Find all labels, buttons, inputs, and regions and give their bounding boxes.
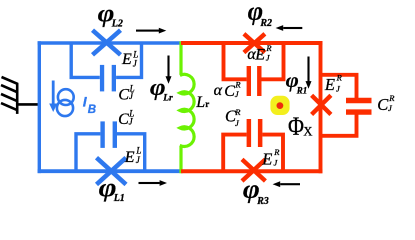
ground xyxy=(1,77,39,114)
capacitor C_J^L bottom plates xyxy=(103,121,115,147)
wire capacitor branch top-left (C_J^L shunt box) xyxy=(71,43,141,77)
label Phi_X xyxy=(288,113,312,141)
label phi_Lr xyxy=(150,73,173,103)
label phi_R3 xyxy=(243,173,269,206)
current source I_B arrow xyxy=(49,81,57,113)
wire capacitor branch far right (C_J^R) xyxy=(321,75,357,136)
svg-text:R: R xyxy=(336,73,343,83)
svg-text:L: L xyxy=(135,146,141,156)
label C_J^R bottom xyxy=(225,106,241,128)
svg-text:E: E xyxy=(121,51,132,68)
label E_J^L bottom xyxy=(124,146,142,167)
label phi_R1 xyxy=(286,69,308,96)
label C_J^R right xyxy=(377,93,395,114)
svg-text:L2: L2 xyxy=(111,19,123,30)
label alpha C_J^R xyxy=(214,80,242,100)
svg-text:Lr: Lr xyxy=(162,93,173,103)
wire blue left vertical xyxy=(38,41,41,173)
svg-text:R2: R2 xyxy=(259,18,272,29)
wire red bottom xyxy=(181,169,322,173)
wire capacitor branch bottom-right (C_J^R shunt box) xyxy=(223,135,283,172)
svg-text:E: E xyxy=(324,75,335,94)
junction X phi_R3 xyxy=(242,159,265,181)
current source I_B circles xyxy=(57,89,74,116)
svg-text:R1: R1 xyxy=(296,85,308,95)
inductor L_r coil xyxy=(180,41,194,173)
svg-text:L: L xyxy=(195,94,205,111)
junction X phi_L1 xyxy=(97,158,127,185)
svg-text:R: R xyxy=(234,107,241,117)
wire red top xyxy=(181,41,322,45)
wire blue bottom xyxy=(38,169,181,173)
svg-text:α: α xyxy=(214,82,223,99)
arrow left (bottom right, phi_R3 direction) xyxy=(273,181,300,187)
junction X phi_R2 xyxy=(244,34,265,53)
arrow right (bottom left, phi_L1 direction) xyxy=(139,180,168,186)
wire capacitor branch bottom-left (C_J^L shunt box) xyxy=(76,134,145,171)
label E_J^L top xyxy=(121,50,138,69)
arrow left (top right, phi_R2 direction) xyxy=(276,25,303,31)
label E_J^R right xyxy=(324,73,343,94)
svg-text:E: E xyxy=(254,47,265,64)
label phi_L2 xyxy=(98,0,123,30)
arrow down (phi_Lr) xyxy=(166,56,172,84)
arrow down (phi_R1) xyxy=(306,57,312,89)
svg-text:E: E xyxy=(124,149,135,166)
svg-text:R: R xyxy=(234,80,241,90)
wire capacitor branch top-right (alpha C_J^R shunt box) xyxy=(224,43,284,79)
label I_B xyxy=(83,94,96,117)
junction X phi_R1 xyxy=(312,95,331,114)
label phi_L1 xyxy=(99,174,125,204)
svg-text:E: E xyxy=(261,149,272,168)
label phi_R2 xyxy=(248,0,272,29)
svg-text:R: R xyxy=(273,147,280,157)
svg-text:C: C xyxy=(118,111,129,128)
wire red right vertical (E_J^R junction branch) xyxy=(319,41,323,173)
svg-text:B: B xyxy=(88,104,96,116)
label alpha E_J^R xyxy=(247,43,272,63)
svg-text:L1: L1 xyxy=(113,193,125,204)
capacitor C_J^L top plates xyxy=(102,65,114,92)
label E_J^R bottom xyxy=(261,147,280,168)
svg-text:C: C xyxy=(224,83,235,100)
arrow right (top left, phi_L2 direction) xyxy=(136,28,166,34)
junction X phi_L2 xyxy=(93,30,121,55)
svg-text:R3: R3 xyxy=(256,196,269,207)
label C_J^L top xyxy=(118,84,134,104)
wire blue top xyxy=(38,41,181,44)
svg-text:Φ: Φ xyxy=(288,113,304,141)
svg-text:r: r xyxy=(205,99,209,109)
capacitor C_J^R bottom plates xyxy=(249,119,260,147)
svg-text:C: C xyxy=(118,87,129,104)
flux marker Phi_X xyxy=(270,96,289,115)
svg-text:X: X xyxy=(303,125,312,139)
label L_r xyxy=(195,94,209,111)
capacitor alpha C_J^R plates xyxy=(249,66,259,96)
label C_J^L bottom xyxy=(118,108,134,128)
capacitor C_J^R right plates xyxy=(346,101,372,113)
svg-text:R: R xyxy=(388,93,395,103)
